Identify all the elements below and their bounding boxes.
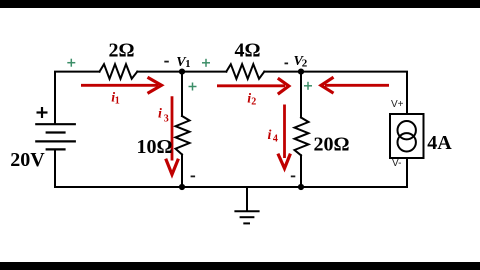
svg-text:2: 2 — [251, 96, 256, 107]
wire top-left segment — [55, 72, 100, 124]
node label V2 — [294, 54, 308, 70]
svg-text:3: 3 — [164, 113, 169, 124]
current arrow i4 — [278, 105, 291, 169]
svg-text:V-: V- — [392, 158, 401, 169]
wire 10ohm down — [181, 155, 183, 188]
svg-text:1: 1 — [115, 96, 120, 107]
node bottom-right dot — [298, 184, 304, 190]
wire bottom — [55, 186, 407, 188]
polarity minus below 10ohm — [191, 175, 196, 177]
svg-text:20V: 20V — [10, 149, 45, 171]
polarity plus green left of 2ohm — [67, 59, 75, 67]
svg-text:i: i — [158, 107, 162, 122]
polarity plus green below V1 — [189, 83, 197, 91]
battery plus sign — [37, 107, 48, 118]
node V2 dot — [298, 69, 304, 75]
polarity minus before V2 — [285, 62, 289, 64]
voltage source V 20V battery plates — [35, 124, 76, 149]
node V1 dot — [179, 69, 185, 75]
current source I1 circles — [398, 121, 416, 152]
label i4 — [268, 128, 278, 145]
polarity plus green right of V1 — [202, 59, 210, 67]
wire V2 down — [300, 72, 302, 118]
node bottom-left dot — [179, 184, 185, 190]
resistor R1 2ohm zigzag — [100, 64, 138, 79]
letterbox top bar — [0, 0, 480, 8]
letterbox bottom bar — [0, 262, 480, 270]
polarity minus before V1 — [164, 61, 169, 63]
wire left vertical below battery — [54, 150, 56, 188]
label i1 — [111, 90, 119, 106]
current arrow i3 — [166, 96, 179, 174]
svg-text:4: 4 — [273, 134, 278, 145]
ground — [234, 187, 259, 223]
svg-text:1: 1 — [185, 59, 190, 70]
current arrow i1 — [81, 77, 162, 93]
current arrow from source to V2 — [321, 77, 389, 93]
resistor R2 4ohm zigzag — [226, 64, 264, 79]
svg-text:4Ω: 4Ω — [234, 40, 260, 62]
svg-text:2Ω: 2Ω — [108, 40, 134, 62]
svg-text:10Ω: 10Ω — [136, 136, 172, 158]
svg-text:4A: 4A — [427, 132, 452, 154]
node label V1 — [176, 55, 190, 70]
wire 20ohm down — [300, 155, 302, 187]
wire right vertical to source box — [406, 158, 408, 187]
resistor R4 20ohm zigzag — [295, 118, 309, 156]
polarity minus below 20ohm — [291, 175, 296, 177]
svg-text:20Ω: 20Ω — [313, 134, 349, 156]
label i2 — [247, 91, 256, 107]
svg-text:V+: V+ — [391, 99, 404, 110]
current source I1 box — [390, 114, 424, 158]
wire top-right segment — [264, 72, 407, 114]
wire V1 to 4ohm — [137, 71, 226, 73]
current arrow i2 — [217, 78, 289, 94]
wire V1 down — [181, 72, 183, 116]
polarity plus green below V2 — [304, 82, 312, 90]
resistor R3 10ohm zigzag — [176, 116, 190, 155]
svg-text:2: 2 — [302, 58, 308, 70]
label i3 — [158, 107, 169, 125]
svg-text:i: i — [268, 128, 272, 143]
